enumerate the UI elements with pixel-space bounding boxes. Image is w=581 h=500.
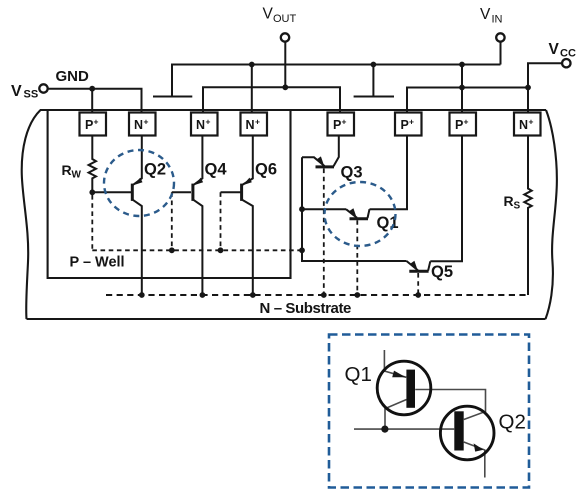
dashed base Q5 down <box>417 273 419 295</box>
svg-text:GND: GND <box>56 68 90 85</box>
wire top surface line <box>40 109 546 111</box>
junction rail1 dot at box4 <box>249 62 255 68</box>
svg-text:IN: IN <box>492 14 503 26</box>
diffusion box2 N+ <box>129 113 156 136</box>
transistor Q6 <box>242 136 253 296</box>
svg-text:Q4: Q4 <box>205 161 228 179</box>
node VCC label <box>549 41 576 60</box>
svg-text:+: + <box>255 117 260 127</box>
silicon bottom line <box>27 318 546 320</box>
junction RW base dot <box>89 189 95 195</box>
wire VSS to N+ box2 <box>48 89 142 112</box>
junction dot Q5 base substrate <box>415 292 421 298</box>
inset transistor Q1 circle <box>377 361 431 415</box>
wire VIN stub to rail1 <box>500 42 502 65</box>
junction dot Q3 base substrate <box>321 292 327 298</box>
wire VOUT stub <box>284 42 286 88</box>
svg-text:N – Substrate: N – Substrate <box>260 300 352 317</box>
node VSS label <box>11 83 38 101</box>
wire Q4 base <box>172 191 191 193</box>
dashed base Q4 down <box>171 192 173 250</box>
wire rail3 VCC <box>407 88 528 113</box>
svg-text:+: + <box>206 117 211 127</box>
dashed base RW down <box>91 195 93 250</box>
node VIN label <box>480 6 503 26</box>
inset transistor Q1 base bar <box>406 370 415 408</box>
svg-text:+: + <box>464 117 469 127</box>
wire GND dot down to P+ box1 <box>91 89 93 113</box>
svg-text:V: V <box>549 41 560 58</box>
svg-text:P: P <box>455 118 463 132</box>
wire emitter node vertical x302 <box>302 157 407 261</box>
N-Substrate dashed line <box>106 294 528 296</box>
wire rail1 down to N+ box4 <box>251 65 253 113</box>
junction dot emitter node y209 <box>299 206 305 212</box>
dashed base Q1 down <box>356 220 358 295</box>
dashed base Q3 down <box>323 169 325 296</box>
svg-text:N: N <box>196 118 205 132</box>
svg-text:+: + <box>94 117 99 127</box>
dashed base Q6 down <box>220 192 222 250</box>
inset equivalent-circuit box <box>329 335 529 488</box>
junction dot Q6 emitter substrate <box>250 292 256 298</box>
svg-text:N: N <box>519 118 528 132</box>
inset wire Q1 collector <box>385 400 407 430</box>
transistor Q5 <box>407 261 431 272</box>
dashed p-well base rail <box>92 249 302 251</box>
inset transistor Q2 base bar <box>454 411 463 450</box>
svg-text:V: V <box>480 6 491 23</box>
svg-text:+: + <box>342 117 347 127</box>
terminal VIN <box>496 33 504 41</box>
svg-text:N: N <box>134 118 143 132</box>
wire RW to base node <box>91 180 93 192</box>
diffusion box7 P+ <box>450 113 477 136</box>
svg-text:CC: CC <box>560 48 576 60</box>
terminal VSS <box>39 84 47 92</box>
node VOUT label <box>263 6 297 26</box>
inset wire Q2 emitter stub <box>464 442 485 478</box>
diffusion box4 N+ <box>241 113 268 136</box>
svg-text:N: N <box>246 118 255 132</box>
inset transistor Q2 circle <box>440 406 494 460</box>
resistor RW <box>89 157 96 180</box>
wire VCC to N+ box8 <box>528 63 562 112</box>
svg-text:V: V <box>263 6 274 23</box>
junction rail1 dot at gate2 <box>371 62 377 68</box>
inset wire Q1 emitter stub <box>384 350 406 377</box>
transistor Q3 <box>302 136 339 167</box>
junction dot base rail to emitter node <box>299 247 305 253</box>
diffusion box6 P+ <box>395 113 422 136</box>
silicon right broken edge <box>546 110 557 319</box>
MOS gate G2 plate <box>354 95 394 97</box>
svg-text:R: R <box>62 162 72 178</box>
resistor RS <box>524 187 531 210</box>
transistor Q4 <box>193 136 203 296</box>
wire rail1 VIN <box>172 65 501 97</box>
svg-text:+: + <box>409 117 414 127</box>
svg-text:Q3: Q3 <box>341 164 363 182</box>
wire box1 to RW <box>91 136 93 158</box>
inset wire base rail <box>354 428 454 430</box>
diffusion box1 P+ <box>80 113 107 136</box>
wire Q6 base <box>221 191 241 193</box>
P-Well boundary <box>48 110 291 278</box>
junction dot Q6 base rail <box>218 247 224 253</box>
resistor RW label <box>62 162 82 181</box>
svg-text:P: P <box>333 118 341 132</box>
svg-text:+: + <box>144 117 149 127</box>
wire emitter node to Q1 <box>302 208 346 210</box>
svg-text:V: V <box>11 83 22 100</box>
svg-text:Q5: Q5 <box>431 263 453 281</box>
diffusion box3 N+ <box>191 113 218 136</box>
junction rail3 dot at x528 <box>525 85 531 91</box>
wire rail2 VOUT <box>203 87 340 112</box>
junction VOUT rail dot <box>282 84 288 90</box>
MOS gate G1 plate <box>153 95 192 97</box>
svg-text:P – Well: P – Well <box>70 255 125 271</box>
terminal VCC <box>562 59 570 67</box>
svg-text:Q6: Q6 <box>255 161 277 179</box>
silicon left broken edge <box>22 110 41 319</box>
wire RS to substrate <box>527 210 529 296</box>
svg-text:R: R <box>504 193 514 209</box>
junction dot Q4 base rail <box>169 247 175 253</box>
wire Q5 collector to box7 <box>430 136 462 262</box>
transistor Q1 <box>346 208 370 219</box>
svg-text:P: P <box>401 118 409 132</box>
latch-up loop circle around Q1 <box>325 182 396 246</box>
svg-text:Q1: Q1 <box>345 363 372 386</box>
wire Q2 base <box>92 191 131 193</box>
wire box8 to RS <box>527 136 529 187</box>
terminal VOUT <box>281 33 289 41</box>
wire rail1 down to gate2 <box>372 65 374 97</box>
inset Q2 emitter arrow <box>474 443 484 451</box>
junction GND dot <box>89 86 95 92</box>
junction dot Q1 base substrate <box>354 292 360 298</box>
svg-text:Q2: Q2 <box>499 411 526 434</box>
junction dot Q4 emitter substrate <box>200 292 206 298</box>
inset wire Q1 base to Q2 collector <box>415 390 485 420</box>
transistor Q2 <box>132 136 142 296</box>
junction dot Q2 emitter substrate <box>139 292 145 298</box>
svg-text:W: W <box>72 170 82 181</box>
diffusion box8 N+ <box>514 113 541 136</box>
junction rail1 dot at x462 <box>459 62 465 68</box>
diffusion box5 P+ <box>328 113 355 136</box>
wire x462 down to P+ box7 <box>461 65 463 113</box>
svg-text:S: S <box>514 201 521 212</box>
inset junction dot <box>381 426 388 433</box>
inset Q1 emitter arrow <box>392 371 406 378</box>
svg-text:OUT: OUT <box>273 13 297 25</box>
svg-text:SS: SS <box>24 89 39 101</box>
svg-text:+: + <box>529 117 534 127</box>
svg-text:Q2: Q2 <box>144 161 166 179</box>
latch-up loop circle around Q2 <box>104 150 174 216</box>
wire Q1 collector to box6 <box>370 136 408 210</box>
resistor RS label <box>504 193 521 212</box>
svg-text:P: P <box>85 118 93 132</box>
junction rail3 dot at x462 <box>459 85 465 91</box>
